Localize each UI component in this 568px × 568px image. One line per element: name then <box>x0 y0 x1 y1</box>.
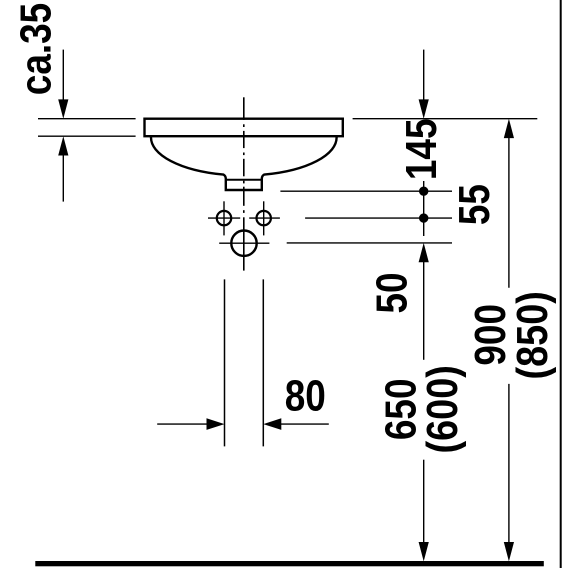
right hole crosshair horizontal <box>249 217 280 219</box>
dim line 900 upper stem <box>508 135 510 288</box>
drain inner line <box>226 179 262 181</box>
80 arrow pointing right <box>207 418 225 430</box>
ca.35 arrow up <box>58 136 68 155</box>
left faucet hole circle <box>217 211 231 225</box>
dot terminator lower <box>419 213 428 222</box>
svg-text:(600): (600) <box>417 365 466 453</box>
right border line <box>560 0 562 568</box>
dim line 145 upper stem <box>423 50 425 103</box>
svg-text:145: 145 <box>396 118 446 180</box>
svg-text:80: 80 <box>285 370 326 420</box>
dim line 650 upper stem <box>423 259 425 360</box>
extension line lower holes level <box>305 217 452 219</box>
left pipe extension line <box>224 279 226 446</box>
left hole crosshair horizontal <box>208 217 240 219</box>
extension line drain center level <box>287 242 452 244</box>
arrow down at floor (900) <box>504 542 514 561</box>
extension line drain bottom level <box>280 190 452 192</box>
svg-text:(850): (850) <box>507 291 556 379</box>
dim line 900 lower stem <box>508 384 510 547</box>
dim stem below lower dot <box>423 218 425 236</box>
svg-text:55: 55 <box>449 184 499 225</box>
basin bowl outline <box>151 137 337 190</box>
right hole crosshair vertical <box>263 201 265 235</box>
80 right arrow stem <box>280 423 329 425</box>
dot terminator upper <box>419 187 428 196</box>
right faucet hole circle <box>257 211 271 225</box>
left hole crosshair vertical <box>223 201 225 235</box>
centerline <box>243 97 245 270</box>
ca.35 extension line top <box>38 118 136 120</box>
ca.35 upper dim stem <box>62 50 64 103</box>
ca.35 arrow down <box>58 99 68 118</box>
drain hole crosshair horizontal <box>219 242 269 244</box>
ca.35 extension line bottom <box>38 135 136 137</box>
dim stem between dots <box>423 191 425 218</box>
svg-text:ca.35: ca.35 <box>10 3 60 95</box>
arrow up at drain center line <box>419 243 429 262</box>
top extension line right <box>353 118 538 120</box>
ca.35 lower dim stem <box>62 152 64 202</box>
arrow up at top line (900) <box>504 119 514 138</box>
arrow down at rim line <box>419 99 429 118</box>
floor line <box>35 561 544 566</box>
dim line 650 lower stem <box>423 460 425 547</box>
basin rim <box>145 119 343 137</box>
80 left arrow stem <box>157 423 208 425</box>
arrow down at floor (650) <box>419 542 429 561</box>
right pipe extension line <box>262 279 264 446</box>
80 arrow pointing left <box>263 418 281 430</box>
dim stem between 145 and dot <box>423 181 425 191</box>
drain hole circle <box>231 231 256 256</box>
svg-text:50: 50 <box>366 272 416 313</box>
